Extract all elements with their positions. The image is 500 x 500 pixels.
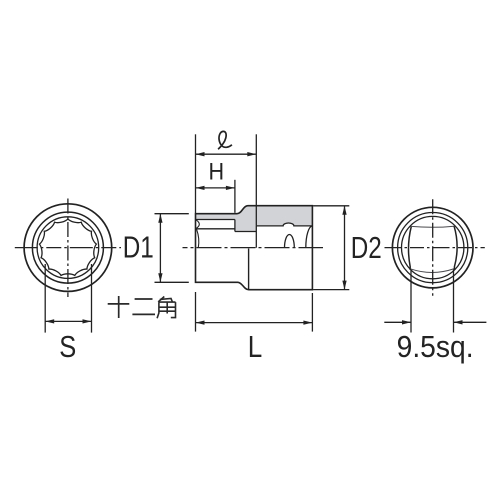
L arrow right (303, 320, 312, 324)
svg-text:S: S (59, 329, 76, 364)
S extension line left (44, 264, 46, 333)
sq extension line right (453, 270, 455, 333)
S extension line right (91, 264, 93, 333)
left view vertical centerline (67, 199, 69, 298)
svg-text:D2: D2 (351, 230, 382, 265)
D2 extension line bottom (313, 289, 349, 291)
D2 arrow bottom (342, 281, 346, 290)
H arrow left (196, 186, 205, 190)
label 12-point kanji: two stroke (132, 299, 155, 314)
opening chamfer arc upper (196, 220, 199, 229)
H arrow right (226, 186, 235, 190)
svg-text:L: L (248, 329, 262, 364)
square hole corner arc (306, 226, 313, 248)
drive end outer circle (392, 207, 473, 288)
square hole right edge (454, 226, 457, 270)
body step edge (248, 249, 250, 290)
S dimension line (45, 320, 91, 322)
square hole left edge (408, 226, 411, 269)
detent ball (285, 235, 295, 248)
H extension line (234, 180, 236, 213)
12-point opening profile (39, 219, 96, 276)
svg-text:D1: D1 (123, 230, 154, 265)
relief bore line (235, 231, 256, 233)
right view vertical centerline (432, 199, 434, 295)
label script ell (218, 131, 232, 149)
socket front view chamfer circle (32, 212, 103, 283)
L dimension line (196, 322, 313, 324)
D2 extension line top (313, 205, 349, 207)
D2 arrow top (342, 206, 346, 215)
square hole bottom edge (410, 269, 454, 273)
D1 arrow top (158, 214, 162, 223)
svg-text:H: H (209, 158, 225, 185)
square hole bottom (255, 226, 257, 248)
bore tooth root line (196, 228, 235, 230)
socket body outline (196, 206, 313, 290)
S dimension arrow left (45, 319, 54, 323)
sq arrow right (454, 320, 463, 324)
square hole top edge (411, 226, 454, 227)
socket front view outer circle (24, 204, 112, 292)
D2 dimension line (344, 206, 346, 290)
opening chamfer arc lower (197, 229, 199, 247)
D1 extension line top (155, 213, 189, 215)
L arrow left (196, 320, 205, 324)
L extension line left (195, 292, 197, 332)
section gray fill (196, 206, 313, 232)
left view horizontal centerline (15, 247, 121, 249)
l extension line right (255, 134, 257, 226)
D1 arrow bottom (158, 273, 162, 282)
L extension line right (311, 293, 313, 332)
label 12-point kanji: ten stroke (108, 296, 130, 318)
svg-text:9.5sq.: 9.5sq. (397, 329, 474, 364)
label 12-point kanji: kaku stroke (157, 297, 175, 319)
side view centerline (183, 247, 324, 249)
sq leader left (384, 321, 411, 323)
square hole wall line with ball groove (256, 223, 312, 226)
D1 dimension line (159, 214, 161, 283)
bore tooth tip line (196, 219, 235, 221)
drive end chamfer circle (398, 213, 468, 283)
l arrow left (196, 152, 205, 156)
D1 extension line bottom (155, 281, 189, 283)
sq extension line left (410, 270, 412, 333)
H dimension line (196, 187, 235, 189)
socket front view bore root circle (37, 217, 99, 279)
l extension line left (195, 134, 197, 213)
drive end face circle (402, 216, 464, 278)
right view horizontal centerline (385, 247, 485, 249)
l arrow right (247, 152, 256, 156)
l dimension line (196, 153, 257, 155)
sq leader right (454, 321, 487, 323)
S dimension arrow right (83, 319, 92, 323)
broach depth step (234, 220, 236, 232)
sq arrow left (402, 320, 411, 324)
